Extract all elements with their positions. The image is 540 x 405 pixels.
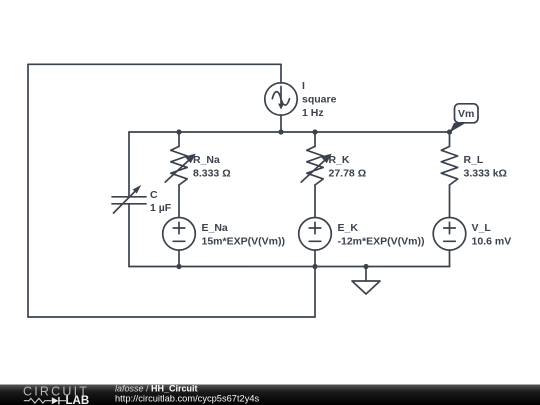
wire V_L bottom stub bbox=[449, 250, 451, 266]
ground bbox=[352, 267, 380, 295]
wire R_K to E_K bbox=[314, 185, 316, 218]
svg-text:R_Na: R_Na bbox=[193, 154, 220, 166]
resistor R_Na (variable) bbox=[165, 146, 196, 185]
svg-text:E_Na: E_Na bbox=[202, 222, 228, 234]
svg-text:1 µF: 1 µF bbox=[150, 202, 172, 214]
svg-text:1 Hz: 1 Hz bbox=[302, 107, 324, 119]
label current source I bbox=[302, 80, 337, 119]
svg-text:8.333 Ω: 8.333 Ω bbox=[193, 168, 231, 180]
resistor R_L bbox=[441, 146, 457, 185]
svg-text:E_K: E_K bbox=[338, 222, 359, 234]
wire R_Na top stub bbox=[178, 132, 180, 146]
resistor R_K (variable) bbox=[301, 146, 332, 185]
wire R_L to V_L bbox=[449, 185, 451, 218]
wire R_K top stub bbox=[314, 132, 316, 146]
node Vm flag bbox=[450, 104, 479, 133]
svg-text:LAB: LAB bbox=[66, 395, 90, 405]
wire E_Na bottom stub bbox=[178, 250, 180, 266]
logo CIRCUIT LAB bbox=[23, 385, 89, 405]
wire current source bottom stub bbox=[280, 115, 282, 132]
wire outer loop bottom bbox=[28, 316, 315, 318]
wire outer loop top bbox=[28, 63, 281, 65]
wire outer loop left bbox=[27, 64, 29, 317]
wire capacitor branch bottom bbox=[128, 204, 130, 267]
wire capacitor branch top bbox=[128, 132, 130, 197]
wire current source top stub bbox=[280, 64, 282, 83]
wire top bus bbox=[129, 131, 450, 133]
junction dot node Vm bbox=[447, 129, 452, 134]
junction dot E_K bottom bbox=[312, 264, 317, 269]
label source V_L bbox=[472, 222, 512, 248]
wire E_K bottom stub bbox=[314, 250, 316, 266]
wire R_Na to E_Na bbox=[178, 185, 180, 218]
label resistor R_K bbox=[329, 154, 367, 180]
junction dot E_Na bottom bbox=[176, 264, 181, 269]
svg-text:I: I bbox=[302, 80, 305, 92]
svg-text:3.333 kΩ: 3.333 kΩ bbox=[464, 168, 507, 180]
voltage source E_K bbox=[299, 218, 332, 251]
junction dot ground bbox=[363, 264, 368, 269]
junction dot R_K top bbox=[312, 129, 317, 134]
svg-text:http://circuitlab.com/cycp5s67: http://circuitlab.com/cycp5s67t2y4s bbox=[115, 394, 260, 404]
voltage source E_Na bbox=[163, 218, 196, 251]
label source E_Na bbox=[202, 222, 285, 248]
label capacitor C bbox=[150, 189, 172, 214]
svg-text:27.78 Ω: 27.78 Ω bbox=[329, 168, 367, 180]
capacitor C bbox=[112, 185, 146, 213]
wire bottom bus bbox=[129, 266, 450, 268]
svg-text:C: C bbox=[150, 189, 158, 201]
footer bar bbox=[0, 385, 540, 405]
label source E_K bbox=[338, 222, 425, 248]
svg-text:R_L: R_L bbox=[464, 154, 484, 166]
label resistor R_Na bbox=[193, 154, 231, 180]
junction dot I source bottom bbox=[278, 129, 283, 134]
svg-text:-12m*EXP(V(Vm)): -12m*EXP(V(Vm)) bbox=[338, 236, 425, 248]
svg-text:Vm: Vm bbox=[458, 108, 474, 120]
wire R_L top stub bbox=[449, 132, 451, 146]
svg-text:R_K: R_K bbox=[329, 154, 350, 166]
junction dot R_Na top bbox=[176, 129, 181, 134]
svg-text:15m*EXP(V(Vm)): 15m*EXP(V(Vm)) bbox=[202, 236, 285, 248]
svg-text:10.6 mV: 10.6 mV bbox=[472, 236, 512, 248]
label resistor R_L bbox=[464, 154, 507, 180]
voltage source V_L bbox=[433, 218, 466, 251]
current source I1 bbox=[265, 83, 297, 115]
wire outer loop riser bbox=[314, 267, 316, 318]
svg-text:lafosse / HH_Circuit: lafosse / HH_Circuit bbox=[115, 384, 198, 394]
svg-text:V_L: V_L bbox=[472, 222, 492, 234]
svg-text:square: square bbox=[302, 94, 337, 106]
